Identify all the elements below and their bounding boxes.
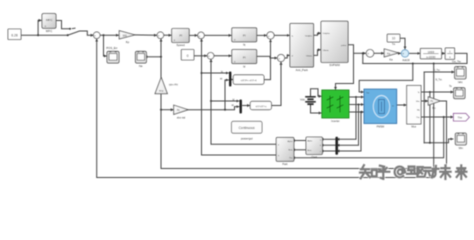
char wei [440, 165, 450, 179]
subsystem Clark (flipped) [306, 137, 322, 159]
watermark 知乎 @驱动未来 [360, 165, 466, 179]
svg-text:N_Tm: N_Tm [436, 79, 442, 81]
wire: fcn1 out up to sum4 [264, 40, 271, 80]
sum2 [157, 32, 164, 39]
svg-text:0: 0 [187, 54, 189, 58]
wire: Vdc - to bridge [311, 105, 322, 113]
svg-text:The: The [289, 157, 292, 159]
subsystem Anti_Park [290, 23, 314, 72]
sumd [207, 53, 214, 60]
svg-text:Ubeta: Ubeta [306, 55, 313, 58]
Mux selector [407, 86, 421, 129]
wire: Anti_Park Ualpha to SVPWM [314, 33, 321, 35]
wire labels right side [220, 60, 462, 107]
svg-text:Wm: Wm [459, 147, 463, 150]
svg-text:+: + [94, 34, 96, 38]
svg-text:Clark: Clark [311, 156, 318, 159]
svg-text:d: d [278, 144, 279, 146]
scope A [455, 67, 466, 84]
gain Ka [384, 49, 398, 62]
switch upper contact stub [72, 27, 75, 29]
constant 10 [387, 34, 400, 46]
sum3 [198, 32, 205, 39]
gain Pn (left) [174, 105, 189, 119]
subsystem PI d [232, 50, 257, 69]
integrator 1/s [445, 48, 454, 59]
wire: sum6 out to transfer fcn [409, 52, 420, 54]
wire: Mux Wm out to Pn gain [421, 100, 428, 102]
svg-text:MFC: MFC [46, 18, 53, 22]
wire: constant 0 to sumd [194, 55, 207, 57]
sum6 highlighted [401, 50, 410, 62]
svg-text:Iabc: Iabc [458, 81, 463, 84]
wire: sum3 out to PIq [204, 34, 231, 36]
svg-text:elec-rad: elec-rad [177, 116, 186, 119]
wire: PIq out to sum4 [257, 34, 267, 36]
subsystem MFC [42, 14, 56, 34]
wire: Clark Alpha to Park [295, 140, 307, 142]
gain Pn (right) [428, 97, 440, 110]
wire: sum1 out to Kp [100, 34, 119, 36]
svg-text:Ne: Ne [139, 64, 143, 68]
gain Kp [119, 31, 135, 44]
wire: Park q feedback to sum3 [202, 39, 277, 155]
svg-text:PI: PI [179, 34, 182, 38]
svg-text:powergui: powergui [241, 137, 253, 141]
wire: bridge C to machine C [349, 111, 364, 113]
svg-text:I_Tm: I_Tm [434, 70, 440, 72]
wire: vertical to scope feed A [423, 72, 425, 143]
svg-text:SVPWM: SVPWM [329, 63, 340, 67]
demux bar at Clark [335, 137, 338, 155]
svg-text:Park: Park [282, 163, 288, 166]
wire: position feedback sum1 bottom [97, 39, 434, 177]
svg-text:30/pi: 30/pi [159, 91, 164, 93]
char qu [407, 167, 423, 177]
wire: machine m to Mux [397, 104, 407, 106]
wire: bottom line into scope C [424, 139, 453, 143]
sumd2 [277, 54, 284, 61]
scope C [455, 133, 466, 150]
subsystem Speed PI [172, 29, 190, 48]
sum1 [93, 32, 100, 39]
scope POS_Err [106, 46, 119, 63]
svg-text:u[2]*(Rs+u[1]*Ld): u[2]*(Rs+u[1]*Ld) [241, 80, 257, 82]
svg-text:10: 10 [392, 37, 396, 41]
svg-text:u[1]*u[2]*Lq: u[1]*u[2]*Lq [255, 106, 267, 108]
wire: Kp out to sum2 [135, 34, 157, 36]
char hu [377, 166, 389, 179]
svg-text:POS_Err: POS_Err [106, 46, 117, 50]
wire: MFC output to upper switch contact [56, 21, 70, 29]
wire: theta down to Park The [295, 117, 444, 158]
wire: phase C tap down to demux bar [339, 112, 361, 151]
svg-text:Idq: Idq [417, 109, 420, 111]
gain 30/pi (up) [155, 77, 179, 93]
svg-text:Ualpha: Ualpha [323, 33, 331, 35]
wire: phase A tap down to demux bar [339, 97, 356, 139]
svg-text:Ka: Ka [389, 57, 393, 61]
subsystem Park (flipped) [276, 137, 294, 166]
wire: wt branch up to mux1 [225, 80, 228, 110]
char at [395, 167, 405, 178]
junction dots [37, 34, 39, 36]
wire: bar to Clark c [323, 150, 335, 152]
svg-text:wt: wt [220, 78, 223, 81]
svg-text:The: The [457, 116, 462, 120]
wire: id branch to mux2 [211, 100, 239, 102]
wire: mux1 to fcn1 [232, 79, 233, 81]
universal bridge (green) [322, 90, 349, 123]
wire: bridge B to machine B [349, 104, 364, 106]
powergui [232, 121, 263, 140]
wire: Speed PI out to sum3 [189, 34, 197, 36]
fcn2 [250, 101, 271, 109]
wire: sumd2 out to Anti_Park d [285, 55, 290, 58]
wire: sumd out to PId [214, 55, 231, 57]
wire: constant to switch [21, 34, 68, 36]
svg-text:pulse: pulse [341, 45, 347, 47]
svg-text:100: 100 [122, 33, 127, 37]
svg-text:+: + [268, 34, 270, 38]
svg-text:Wm: Wm [416, 101, 420, 103]
svg-text:b: b [320, 145, 321, 147]
constant 6.28 [8, 29, 21, 40]
svg-text:+: + [279, 56, 281, 60]
wire: Pn left out to mux2 [188, 107, 239, 110]
wire: bridge A to machine A [349, 96, 364, 98]
wire: Anti_Park Ubeta to SVPWM [314, 50, 321, 56]
manual switch lever [68, 31, 94, 35]
wire: Tm routing into machine [359, 64, 413, 93]
DC source Vdc [300, 94, 315, 106]
svg-text:Kp: Kp [126, 40, 130, 44]
wire: Clark Beta to Park [295, 149, 307, 151]
wire: Ka out to sum6 [398, 52, 400, 55]
wire: Pn out down to speed feedback line [161, 39, 447, 169]
subsystem SVPWM [321, 21, 348, 67]
sum4 [267, 32, 274, 39]
svg-text:Continuous: Continuous [239, 126, 256, 130]
mux2 bar [240, 100, 242, 114]
wire: sum5 out to Ka [374, 52, 384, 54]
wire: sum4 out to Anti_Park q [274, 34, 289, 36]
PMSM machine (blue) [364, 89, 397, 128]
svg-text:Anti_Park: Anti_Park [296, 68, 309, 72]
wire: bar to Clark b [323, 144, 335, 146]
wire: Mux Te out to scope B [421, 91, 453, 93]
svg-text:Mux: Mux [411, 126, 416, 129]
svg-text:6.28: 6.28 [11, 34, 18, 38]
wire: iq branch to mux1 [202, 72, 229, 74]
svg-text:PI: PI [243, 55, 246, 59]
svg-text:Speed: Speed [176, 43, 185, 47]
wire: constant 10 down into sum6 [400, 38, 405, 49]
scope Ne [135, 51, 146, 68]
mux1 bar [229, 72, 231, 87]
svg-text:PMSM: PMSM [377, 125, 385, 128]
svg-text:c: c [320, 151, 321, 153]
svg-text:q: q [278, 155, 279, 157]
svg-text:+: + [158, 34, 160, 38]
wire: branch to Pn left gain [161, 109, 173, 111]
wire: phase B tap down to demux bar [339, 105, 358, 146]
svg-text:PI: PI [243, 34, 246, 38]
wire: fcn2 out up to sumd2 [271, 62, 281, 105]
svg-text:MFC: MFC [46, 29, 53, 33]
svg-text:wt: wt [232, 104, 235, 107]
svg-text:s+10000: s+10000 [426, 56, 436, 59]
svg-text:Id: Id [243, 64, 246, 68]
scope B [449, 85, 465, 99]
wire: Mux The out to goto tag [421, 116, 453, 118]
svg-text:+: + [402, 52, 404, 56]
svg-text:+: + [199, 34, 201, 38]
wire: long theta line from integrator [363, 53, 467, 63]
wire: branch up to MFC input [38, 20, 41, 35]
svg-text:Add16: Add16 [402, 59, 410, 62]
constant 0 [181, 50, 194, 61]
svg-text:Te: Te [449, 85, 452, 88]
svg-text:Vdc: Vdc [300, 98, 305, 102]
wire: branch down to POS_Err scope [104, 35, 107, 56]
sum5 [366, 50, 374, 58]
svg-text:Pn: Pn [432, 106, 436, 110]
subsystem PI q [232, 28, 257, 47]
svg-text:Ualpha: Ualpha [305, 35, 313, 37]
wire: transfer fcn to integrator [442, 52, 445, 54]
svg-text:Ubeta: Ubeta [323, 49, 330, 52]
svg-text:Tm: Tm [392, 44, 395, 46]
char zhi [360, 165, 377, 178]
svg-text:Tm: Tm [366, 93, 369, 95]
wire: vertical to scope feed B [429, 92, 431, 143]
char dong [424, 166, 438, 178]
wire: SVPWM pulse to bridge gate [336, 45, 354, 90]
transfer fcn [420, 48, 441, 58]
char lai [456, 165, 466, 179]
wire: theta feedback vertical into sum5 node [362, 53, 364, 63]
wire: scope A input [424, 71, 454, 73]
wire: Park d feedback to sumd [211, 59, 276, 144]
svg-text:Iq: Iq [243, 43, 246, 47]
wire: PId out to sumd2 [257, 56, 277, 58]
svg-text:+: + [367, 52, 369, 56]
svg-text:Out_The: Out_The [452, 60, 462, 63]
goto tag The (purple) [453, 113, 469, 121]
svg-text:rpm->Hz: rpm->Hz [169, 83, 179, 86]
wire: input stub to sum5 [354, 52, 366, 54]
wire: mux2 to fcn2 [243, 105, 250, 107]
fcn1 [233, 75, 264, 85]
svg-text:m: m [392, 105, 394, 107]
svg-text:Inverter: Inverter [331, 120, 340, 123]
svg-text:+: + [208, 54, 210, 58]
wire: Vdc + to bridge [311, 89, 322, 96]
wire: branch to Ne scope [147, 56, 161, 58]
wire: bar to Clark a [323, 138, 335, 140]
wire: sum2 out to Speed PI [164, 34, 171, 36]
